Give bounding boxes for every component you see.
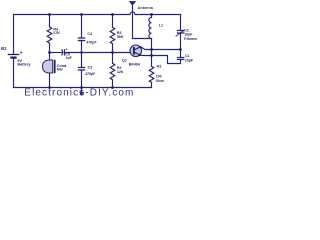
wire R3 bottom lead — [112, 44, 114, 53]
wire R4 top lead — [49, 15, 51, 27]
wire C4 bottom lead — [81, 41, 83, 53]
resistor R1 zigzag — [149, 66, 154, 82]
resistor R2 zigzag — [110, 63, 115, 79]
svg-text:1uF: 1uF — [66, 56, 73, 60]
wire base wire left of C5 — [50, 52, 63, 54]
resistor R4 zigzag — [47, 27, 52, 43]
capacitor C4 plates — [78, 38, 84, 41]
svg-text:Battery: Battery — [17, 63, 31, 67]
wire antenna to coil bottom — [133, 38, 152, 40]
svg-text:Q1: Q1 — [122, 58, 127, 62]
wire right vertical top lead to C2 — [180, 15, 182, 31]
node dot top rail at R3 — [111, 13, 114, 16]
trimmer arrow of C2 — [176, 30, 184, 36]
wire collector node to C2 bottom — [152, 49, 181, 51]
wire base wire C5 to Q1 — [65, 52, 134, 54]
svg-text:470pF: 470pF — [85, 41, 97, 45]
wire top V+ rail with hop over antenna lead — [14, 12, 181, 15]
wire R1 top lead — [151, 56, 153, 67]
wire R2 bottom lead — [112, 80, 114, 88]
microphone right plate — [54, 60, 56, 73]
wire R2 top lead — [112, 53, 114, 64]
wire left rail upper — [13, 15, 15, 55]
inductor L1 coil loops — [149, 17, 152, 38]
node dot emitter — [150, 54, 153, 57]
node dot ground rail at mic — [48, 86, 51, 89]
capacitor C3 plates — [78, 68, 84, 71]
svg-text:27K: 27K — [53, 31, 60, 35]
svg-text:C3: C3 — [88, 65, 93, 69]
node dot base at C4/C3 — [80, 51, 83, 54]
node dot base at R3/R2 — [111, 51, 114, 54]
antenna symbol filled triangle — [129, 1, 136, 6]
node dot top rail at L1 — [150, 13, 153, 16]
wire left rail lower — [13, 58, 15, 88]
wire collector stub Q1 to node — [141, 47, 152, 50]
wire bottom ground rail — [14, 87, 152, 89]
battery B1 long plate — [8, 54, 19, 56]
wire R3 top lead — [112, 15, 114, 28]
node dot ground rail at R2 — [111, 86, 114, 89]
transistor Q1 base bar — [133, 47, 135, 55]
transistor Q1 emitter diagonal with arrow — [135, 52, 141, 55]
wire C4 top lead — [81, 15, 83, 39]
microphone body — [43, 60, 53, 73]
capacitor C5 curved plate — [61, 50, 64, 55]
node dot top rail at R4 — [48, 13, 51, 16]
transistor Q1 emitter arrowhead — [138, 53, 141, 56]
wire R4 bottom lead — [49, 43, 51, 52]
wire R1 bottom lead — [151, 82, 153, 87]
svg-text:C4: C4 — [87, 32, 92, 36]
ground stub below rail — [81, 88, 83, 93]
transistor Q1 collector diagonal — [135, 47, 141, 50]
svg-text:12K: 12K — [117, 70, 124, 74]
wire mic top lead — [49, 53, 51, 61]
svg-text:Trimmer: Trimmer — [184, 37, 198, 41]
wire C3 bottom lead — [81, 70, 83, 88]
svg-text:10pF: 10pF — [185, 58, 194, 62]
transistor Q1 body circle — [130, 45, 142, 57]
node dot top rail at C4 — [80, 13, 83, 16]
svg-text:L1: L1 — [159, 23, 163, 27]
wire C2/C1 link collector node to C1 top — [180, 50, 182, 58]
capacitor C2 trimmer plates — [177, 31, 183, 34]
svg-text:+: + — [20, 51, 23, 57]
svg-text:Ohm: Ohm — [156, 79, 164, 83]
wire L1 top lead — [151, 15, 153, 18]
resistor R3 zigzag — [110, 27, 115, 43]
node dot collector right at C2 — [179, 48, 182, 51]
antenna lead down through hop — [132, 6, 134, 39]
trimmer C2 arrowhead — [182, 30, 184, 32]
svg-text:56K: 56K — [117, 35, 124, 39]
wire emitter stub and dogleg to C1 — [140, 55, 180, 63]
wire C3 top lead — [81, 53, 83, 68]
ground arrow triangle — [79, 92, 84, 96]
svg-text:BF494: BF494 — [129, 63, 141, 67]
node dot collector left — [150, 48, 153, 51]
svg-text:470pF: 470pF — [84, 72, 96, 76]
svg-text:Mic: Mic — [57, 68, 63, 72]
capacitor C5 straight plate — [64, 50, 66, 55]
svg-text:Antenna: Antenna — [138, 6, 154, 10]
svg-text:R1: R1 — [157, 64, 162, 68]
svg-text:B1: B1 — [1, 46, 7, 51]
node dot base at mic/C5 — [48, 51, 51, 54]
node dot ground rail at C3 — [80, 86, 83, 89]
wire collector rail coil bottom to emitter node — [151, 39, 153, 56]
battery B1 short plate — [10, 56, 16, 58]
wire mic bottom lead — [49, 73, 51, 88]
wire C2 bottom to collector node — [180, 33, 182, 50]
capacitor C1 plates — [177, 58, 183, 60]
svg-text:Electronics-DIY.com: Electronics-DIY.com — [24, 88, 134, 99]
